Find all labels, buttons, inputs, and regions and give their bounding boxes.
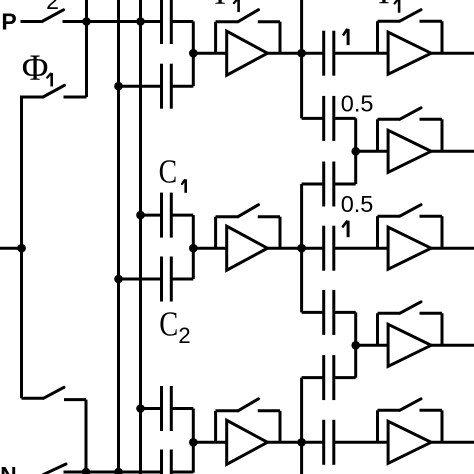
svg-text:2: 2 [46, 0, 59, 14]
op-amp buffer U4 [388, 32, 431, 74]
capacitor C2 left wire [141, 407, 162, 410]
wire P rail to sampling caps [87, 20, 162, 23]
node summing node row1 dot [189, 49, 198, 58]
switch PHI1 contact [64, 96, 87, 99]
node buffer U2 output bus dot [297, 244, 306, 253]
capacitor C1 left wire [141, 214, 162, 217]
node summing node row5 dot [189, 438, 198, 447]
wire buffer U4 output [431, 52, 474, 55]
svg-text:N: N [0, 462, 17, 474]
switch reset U3 loop [216, 399, 280, 443]
node P bus dot at C2a feed [136, 404, 145, 413]
op-amp buffer U8 [388, 421, 431, 463]
svg-text:0.5: 0.5 [341, 191, 374, 217]
svg-text:C: C [159, 305, 178, 344]
switch PHI2 arm [42, 10, 64, 22]
svg-text:C: C [159, 153, 178, 190]
capacitor Ci6 right wire [334, 376, 356, 379]
node N rail / N bus junction dot [114, 468, 123, 474]
wire col2 bus segment B [300, 184, 303, 312]
switch S3 left wire [22, 397, 44, 400]
svg-text:Φ: Φ [22, 47, 49, 88]
node P-switch junction dot [82, 17, 91, 26]
switch PHI2 contact [63, 20, 87, 23]
capacitor C1b right wire [171, 278, 193, 281]
switch reset U8 loop [378, 399, 443, 443]
capacitor Ci3 value 0.5 [324, 162, 334, 207]
wire buffer U5 input [356, 150, 388, 153]
capacitor Ct1 right wire [171, 20, 193, 23]
label PHI1 [22, 47, 52, 88]
capacitor Ci7 right wire [334, 441, 388, 444]
node left stub junction dot [17, 244, 26, 253]
capacitor Ci1 value 1 (row1) [324, 31, 334, 76]
label PHI2 subscript 2 [46, 0, 59, 14]
wire join vertical bottom pair [192, 409, 195, 473]
capacitor C2b (N, bottom) [162, 450, 172, 474]
svg-text:P: P [1, 8, 16, 34]
node interp node row4 dot [351, 341, 360, 350]
label Ci2 value 0.5 [341, 90, 374, 116]
label PHI1 above U4 switch (clipped) [371, 0, 400, 13]
capacitor C1b left wire [119, 278, 162, 281]
capacitor Ct2 (N, top) [162, 64, 172, 109]
capacitor Ci7 value 1 (row5, unlabeled) [324, 420, 334, 465]
wire buffer U6 output [431, 247, 474, 250]
capacitor Ct1 (P, top) [162, 0, 172, 44]
capacitor C2 right wire [171, 407, 193, 410]
capacitor Ci1 right wire [334, 52, 388, 55]
wire buffer U3 output [268, 441, 324, 444]
wire N rail [64, 471, 162, 474]
switch S3 contact [64, 398, 86, 401]
capacitor C1 right wire [171, 214, 193, 217]
op-amp buffer U7 [388, 324, 431, 366]
node N bus dot at C1b [114, 82, 123, 91]
node buffer U3 output bus dot [297, 438, 306, 447]
wire col2 bus stub to Ci3 [302, 183, 324, 186]
switch PHI1 arm [43, 85, 65, 97]
capacitor C1 (P, mid) [162, 193, 172, 238]
capacitor Ct2 right wire [171, 85, 193, 88]
wire col2 bus stub to Ci6 [302, 376, 324, 379]
input label N [0, 462, 17, 474]
svg-text:2: 2 [178, 323, 190, 348]
capacitor Ct2 left wire [119, 85, 162, 88]
node P bus dot at C1a feed [136, 211, 145, 220]
switch S3 arm [43, 387, 64, 398]
label PHI1 above U1 switch (clipped) [207, 0, 239, 12]
op-amp buffer U5 [388, 130, 431, 172]
switch PHI1 left wire [22, 96, 44, 99]
switch reset U5 loop [378, 108, 443, 152]
wire col2 bus segment A [300, 0, 303, 118]
capacitor Ci4 right wire [334, 247, 388, 250]
wire buffer U7 output [431, 344, 474, 347]
op-amp buffer U2 [227, 226, 268, 270]
capacitor Ci5 right wire [334, 311, 356, 314]
node N rail junction dot left [82, 468, 91, 474]
capacitor Ci2 right wire [334, 117, 356, 120]
wire buffer U7 input [356, 344, 388, 347]
wire left vertical from PHI1 switch [20, 96, 23, 399]
op-amp buffer U6 [388, 227, 431, 269]
wire buffer U1 output [268, 52, 324, 55]
op-amp buffer U1 [227, 31, 268, 75]
wire col2 bus segment C [300, 378, 303, 474]
switch reset U7 loop [378, 302, 443, 346]
wire left edge stub [0, 247, 23, 250]
wire interp join vertical rows 1-3 [354, 118, 357, 184]
label Ci4 value 1 [343, 221, 348, 238]
capacitor C1b (N, mid) [162, 257, 172, 302]
svg-text:0.5: 0.5 [341, 90, 374, 116]
wire col2 bus stub to Ci2 [302, 117, 324, 120]
capacitor Ci2 value 0.5 [324, 96, 334, 141]
wire N bus vertical [117, 0, 120, 474]
node buffer U1 output bus dot [297, 49, 306, 58]
wire buffer U2 output [268, 247, 324, 250]
capacitor Ci5 value 0.5 (unlabeled) [324, 290, 334, 335]
wire buffer U2 input [193, 247, 226, 250]
wire bus A vertical (top stub) [85, 0, 88, 97]
switch PHI2 wire from P [21, 20, 43, 23]
wire interp join vertical rows 3-5 [354, 312, 357, 377]
wire buffer U1 input [193, 52, 226, 55]
capacitor C2b right wire [171, 471, 193, 474]
label Ci3 value 0.5 [341, 191, 374, 217]
node P rail / P bus junction dot [136, 17, 145, 26]
wire col2 bus stub to Ci5 [302, 311, 324, 314]
capacitor Ci3 right wire [334, 183, 356, 186]
capacitor C2 (P, bottom) [162, 386, 172, 431]
node interp node row2 dot [351, 147, 360, 156]
label C1 [159, 153, 186, 192]
switch reset U1 loop [216, 10, 280, 54]
switch reset U4 loop [378, 10, 443, 54]
wire buffer U8 output [431, 441, 474, 444]
switch reset U2 loop [216, 205, 280, 249]
op-amp buffer U3 [227, 420, 268, 464]
switch reset U6 loop [378, 205, 443, 249]
wire join vertical mid pair [192, 215, 195, 279]
capacitor Ci4 value 1 (row3) [324, 226, 334, 271]
svg-text:Φ: Φ [371, 0, 398, 12]
label Ci1 value 1 [344, 29, 349, 45]
wire P bus vertical [139, 0, 142, 474]
wire buffer U5 output [431, 150, 474, 153]
svg-text:Φ: Φ [207, 0, 234, 12]
wire buffer U3 input [193, 441, 226, 444]
wire join vertical top pair [192, 22, 195, 87]
node N bus dot at C2b [114, 275, 123, 284]
node summing node row3 dot [189, 244, 198, 253]
wire S3 contact down to N rail [85, 400, 88, 472]
label C2 [159, 305, 190, 349]
capacitor Ci6 value 0.5 (unlabeled) [324, 355, 334, 400]
input label P [1, 8, 16, 34]
switch N arm [44, 464, 67, 474]
